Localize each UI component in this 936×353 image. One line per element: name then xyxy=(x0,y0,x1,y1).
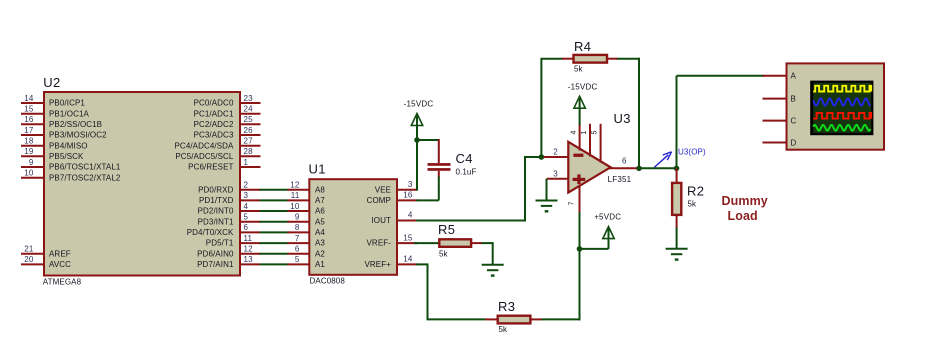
label C4 xyxy=(456,151,473,166)
wire PD1/TXD to U1 A7 xyxy=(260,199,289,201)
svg-text:PB0/ICP1: PB0/ICP1 xyxy=(49,99,85,108)
wire VREF+ to R3 xyxy=(416,263,486,319)
wire R5 to ground xyxy=(482,242,493,265)
svg-text:PD2/INT0: PD2/INT0 xyxy=(198,207,234,216)
svg-text:14: 14 xyxy=(24,94,34,103)
U1 pin 12 (A8) xyxy=(288,181,326,195)
svg-text:5: 5 xyxy=(592,131,599,135)
label R3 xyxy=(498,299,515,314)
probe U3(OP) xyxy=(654,147,706,167)
oscilloscope pin C xyxy=(763,116,797,125)
svg-text:COMP: COMP xyxy=(367,196,391,205)
svg-text:U1: U1 xyxy=(309,162,326,177)
svg-text:8: 8 xyxy=(295,223,300,232)
svg-text:C4: C4 xyxy=(456,151,473,166)
svg-text:U3: U3 xyxy=(614,111,631,126)
svg-text:11: 11 xyxy=(244,234,253,243)
svg-text:5k: 5k xyxy=(688,200,698,209)
svg-text:16: 16 xyxy=(403,191,413,200)
trace B (blue sine wave) xyxy=(813,98,870,105)
svg-text:A6: A6 xyxy=(315,207,325,216)
label Dummy Load xyxy=(722,194,768,223)
U2 pin 21 (AREF) xyxy=(21,245,71,259)
svg-text:15: 15 xyxy=(24,105,34,114)
value 5k (R5) xyxy=(439,250,449,259)
svg-text:R4: R4 xyxy=(574,39,591,54)
trace D (green sine wave) xyxy=(813,125,870,131)
svg-text:28: 28 xyxy=(244,147,254,156)
svg-text:2: 2 xyxy=(553,148,558,157)
svg-text:1: 1 xyxy=(581,131,588,135)
chip U1 body (DAC0808) xyxy=(309,179,397,275)
resistor R3 xyxy=(485,316,543,324)
U1 pin 14 (VREF+) xyxy=(364,255,417,269)
value 0.1uF xyxy=(456,168,477,177)
svg-text:AVCC: AVCC xyxy=(49,260,71,269)
U2 pin 13 (PD7/AIN1) xyxy=(197,255,260,269)
U1 pin 5 (A1) xyxy=(288,255,326,269)
svg-text:PC0/ADC0: PC0/ADC0 xyxy=(194,99,234,108)
capacitor C4 xyxy=(428,139,451,178)
wire R2 to ground xyxy=(676,228,678,249)
svg-text:PD3/INT1: PD3/INT1 xyxy=(198,217,234,226)
svg-text:25: 25 xyxy=(244,115,254,124)
svg-text:PB5/SCK: PB5/SCK xyxy=(49,152,84,161)
svg-text:6: 6 xyxy=(622,157,627,166)
svg-text:PB1/OC1A: PB1/OC1A xyxy=(49,109,89,118)
U1 pin 4 (IOUT) xyxy=(371,211,417,225)
svg-text:A4: A4 xyxy=(315,228,325,237)
svg-text:11: 11 xyxy=(291,191,300,200)
junction VEE/C4 xyxy=(414,137,420,143)
wire output to oscilloscope A xyxy=(677,76,765,170)
svg-text:9: 9 xyxy=(29,158,34,167)
resistor R5 xyxy=(439,239,482,247)
U2 pin 5 (PD3/INT1) xyxy=(198,213,261,227)
svg-text:A: A xyxy=(791,72,797,81)
svg-text:14: 14 xyxy=(403,255,413,264)
value DAC0808 xyxy=(310,277,346,286)
wire PD2/INT0 to U1 A6 xyxy=(260,210,289,212)
oscilloscope screen xyxy=(810,81,873,136)
label U2 xyxy=(43,75,60,90)
U2 pin 25 (PC2/ADC2) xyxy=(194,115,261,129)
U2 pin 24 (PC1/ADC1) xyxy=(194,105,261,119)
svg-text:27: 27 xyxy=(244,137,254,146)
junction output/R2/scope xyxy=(674,166,680,172)
svg-text:4: 4 xyxy=(244,202,249,211)
svg-text:18: 18 xyxy=(24,137,34,146)
svg-text:10: 10 xyxy=(290,202,300,211)
trace C (red square wave) xyxy=(813,113,871,119)
svg-text:26: 26 xyxy=(244,126,254,135)
U2 pin 1 (PC6/RESET) xyxy=(188,158,260,172)
svg-text:AREF: AREF xyxy=(49,249,71,258)
svg-text:6: 6 xyxy=(244,223,249,232)
svg-text:LF351: LF351 xyxy=(608,175,632,184)
wire R4 right to output node xyxy=(617,58,639,169)
svg-text:ATMEGA8: ATMEGA8 xyxy=(43,278,82,287)
U2 pin 19 (PB5/SCK) xyxy=(21,147,84,161)
wire PD4/T0/XCK to U1 A4 xyxy=(260,231,289,233)
value ATMEGA8 xyxy=(43,278,82,287)
junction U3 pin7 / +5VDC / R3 xyxy=(577,246,583,252)
svg-text:PB6/TOSC1/XTAL1: PB6/TOSC1/XTAL1 xyxy=(49,163,121,172)
ground (R5) xyxy=(482,265,504,276)
svg-text:R2: R2 xyxy=(687,184,704,199)
wire PD5/T1 to U1 A3 xyxy=(260,242,289,244)
value 5k (R4) xyxy=(574,65,584,74)
U3 pin 5 xyxy=(592,124,601,163)
junction output node xyxy=(636,166,642,172)
U2 pin 15 (PB1/OC1A) xyxy=(21,105,89,119)
wire junction to C4 top xyxy=(416,139,439,141)
svg-text:PB4/MISO: PB4/MISO xyxy=(49,141,88,150)
svg-text:-15VDC: -15VDC xyxy=(404,100,434,109)
label R5 xyxy=(438,222,455,237)
svg-text:PD4/T0/XCK: PD4/T0/XCK xyxy=(187,228,234,237)
svg-text:A2: A2 xyxy=(315,249,325,258)
svg-text:15: 15 xyxy=(403,233,413,242)
svg-text:5: 5 xyxy=(295,255,300,264)
U2 pin 26 (PC3/ADC3) xyxy=(194,126,261,140)
wire -15VDC to VEE pin 3 xyxy=(416,125,418,191)
resistor R4 xyxy=(562,55,618,63)
oscilloscope pin B xyxy=(763,94,796,103)
power +5VDC xyxy=(579,213,622,249)
ground (R2) xyxy=(666,249,688,260)
svg-text:5k: 5k xyxy=(439,250,449,259)
svg-text:PC5/ADC5/SCL: PC5/ADC5/SCL xyxy=(175,152,234,161)
U3 pin 1 xyxy=(581,124,590,157)
U1 pin 8 (A4) xyxy=(288,223,326,237)
U2 pin 17 (PB3/MOSI/OC2) xyxy=(21,126,107,140)
wire C4 bottom to COMP pin 16 xyxy=(416,177,439,201)
svg-text:+5VDC: +5VDC xyxy=(594,213,621,222)
U3 pin 3 xyxy=(547,169,570,178)
oscilloscope pin D xyxy=(763,138,797,147)
svg-text:0.1uF: 0.1uF xyxy=(456,168,477,177)
svg-text:12: 12 xyxy=(290,181,300,190)
op-amp U3 xyxy=(568,142,610,193)
svg-text:B: B xyxy=(791,94,796,103)
wire R3 right to +5VDC node xyxy=(542,318,581,320)
svg-text:A8: A8 xyxy=(315,185,325,194)
U2 pin 27 (PC4/ADC4/SDA) xyxy=(175,137,261,151)
svg-text:R3: R3 xyxy=(498,299,515,314)
svg-text:13: 13 xyxy=(244,255,254,264)
svg-text:PB2/SS/OC1B: PB2/SS/OC1B xyxy=(49,120,102,129)
svg-text:U3(OP): U3(OP) xyxy=(678,147,706,156)
wire PD3/INT1 to U1 A5 xyxy=(260,221,289,223)
power -15VDC (U3 pin 4) xyxy=(568,83,598,125)
svg-text:PC3/ADC3: PC3/ADC3 xyxy=(194,131,234,140)
U2 pin 4 (PD2/INT0) xyxy=(198,202,261,216)
wire PD6/AIN0 to U1 A2 xyxy=(260,253,289,255)
svg-text:PD1/TXD: PD1/TXD xyxy=(199,196,234,205)
wire U3 pin7 down to R3 xyxy=(579,212,581,320)
svg-text:21: 21 xyxy=(24,245,34,254)
svg-text:A1: A1 xyxy=(315,260,325,269)
svg-text:9: 9 xyxy=(295,213,300,222)
svg-text:24: 24 xyxy=(244,105,254,114)
U2 pin 23 (PC0/ADC0) xyxy=(194,94,261,108)
U1 pin 10 (A6) xyxy=(288,202,326,216)
svg-text:Dummy: Dummy xyxy=(722,194,768,208)
svg-text:A5: A5 xyxy=(315,217,325,226)
value LF351 xyxy=(608,175,632,184)
svg-text:12: 12 xyxy=(244,245,254,254)
wire R4 left xyxy=(540,58,563,60)
svg-text:DAC0808: DAC0808 xyxy=(310,277,346,286)
svg-text:PD6/AIN0: PD6/AIN0 xyxy=(197,249,234,258)
U1 pin 16 (COMP) xyxy=(367,191,418,205)
wire IOUT to U3 pin 2 xyxy=(416,157,541,222)
U1 pin 15 (VREF-) xyxy=(367,233,418,247)
svg-text:10: 10 xyxy=(24,169,34,178)
svg-text:U2: U2 xyxy=(43,75,60,90)
svg-text:5k: 5k xyxy=(574,65,584,74)
svg-text:20: 20 xyxy=(24,255,34,264)
power -15VDC (VEE/C4) xyxy=(404,100,434,126)
resistor R2 xyxy=(672,168,681,228)
svg-text:4: 4 xyxy=(408,211,413,220)
svg-text:PD7/AIN1: PD7/AIN1 xyxy=(197,260,234,269)
svg-text:IOUT: IOUT xyxy=(371,216,391,225)
svg-text:7: 7 xyxy=(295,234,300,243)
svg-text:A3: A3 xyxy=(315,239,325,248)
wire PD7/AIN1 to U1 A1 xyxy=(260,263,289,265)
U2 pin 12 (PD6/AIN0) xyxy=(197,245,260,259)
U2 pin 18 (PB4/MISO) xyxy=(21,137,88,151)
U2 pin 9 (PB6/TOSC1/XTAL1) xyxy=(21,158,121,172)
svg-text:VEE: VEE xyxy=(375,185,391,194)
U2 pin 2 (PD0/RXD) xyxy=(198,181,260,195)
svg-text:7: 7 xyxy=(568,202,575,206)
svg-text:VREF-: VREF- xyxy=(367,239,392,248)
U3 pin 4 xyxy=(570,124,579,151)
svg-text:6: 6 xyxy=(295,245,300,254)
U1 pin 6 (A2) xyxy=(288,245,326,259)
chip U2 body (ATMEGA8) xyxy=(44,92,240,276)
svg-text:23: 23 xyxy=(244,94,254,103)
U2 pin 20 (AVCC) xyxy=(21,255,71,269)
U2 pin 11 (PD5/T1) xyxy=(206,234,261,248)
svg-text:PC4/ADC4/SDA: PC4/ADC4/SDA xyxy=(175,141,235,150)
trace A (yellow square wave) xyxy=(813,86,871,92)
U1 pin 11 (A7) xyxy=(288,191,326,205)
svg-text:3: 3 xyxy=(553,169,558,178)
U3 pin 7 xyxy=(568,185,579,214)
svg-text:PC6/RESET: PC6/RESET xyxy=(188,163,233,172)
svg-text:PD5/T1: PD5/T1 xyxy=(206,239,234,248)
svg-text:16: 16 xyxy=(24,115,34,124)
svg-text:4: 4 xyxy=(570,131,577,135)
svg-text:PC2/ADC2: PC2/ADC2 xyxy=(194,120,234,129)
label R2 xyxy=(687,184,704,199)
U1 pin 9 (A5) xyxy=(288,213,326,227)
svg-text:3: 3 xyxy=(408,180,413,189)
U2 pin 14 (PB0/ICP1) xyxy=(21,94,85,108)
svg-text:PC1/ADC1: PC1/ADC1 xyxy=(194,109,234,118)
U1 pin 3 (VEE) xyxy=(375,180,418,194)
U2 pin 28 (PC5/ADC5/SCL) xyxy=(175,147,260,161)
wire output node xyxy=(639,167,677,169)
svg-text:D: D xyxy=(791,138,797,147)
U1 pin 7 (A3) xyxy=(288,234,326,248)
oscilloscope body xyxy=(787,63,885,149)
wire U3 pin2 node up to R4 xyxy=(540,59,542,157)
svg-text:Load: Load xyxy=(728,209,758,223)
svg-text:-15VDC: -15VDC xyxy=(568,83,598,92)
svg-text:C: C xyxy=(791,116,797,125)
svg-text:2: 2 xyxy=(244,181,249,190)
label U1 xyxy=(309,162,326,177)
U2 pin 10 (PB7/TOSC2/XTAL2) xyxy=(21,169,121,183)
ground (U3 pin 3) xyxy=(536,179,558,212)
U2 pin 3 (PD1/TXD) xyxy=(199,191,261,205)
value 5k (R2) xyxy=(688,200,698,209)
svg-text:PB3/MOSI/OC2: PB3/MOSI/OC2 xyxy=(49,131,107,140)
U3 pin 2 xyxy=(544,148,570,157)
U2 pin 16 (PB2/SS/OC1B) xyxy=(21,115,102,129)
junction U3 inverting input xyxy=(539,154,545,160)
svg-text:5: 5 xyxy=(244,213,249,222)
value 5k (R3) xyxy=(499,325,509,334)
svg-text:PB7/TOSC2/XTAL2: PB7/TOSC2/XTAL2 xyxy=(49,173,121,182)
label R4 xyxy=(574,39,591,54)
svg-text:PD0/RXD: PD0/RXD xyxy=(198,185,233,194)
svg-text:3: 3 xyxy=(244,191,249,200)
oscilloscope pin A xyxy=(763,72,797,81)
U3 pin 6 (output) xyxy=(609,157,638,169)
svg-text:5k: 5k xyxy=(499,325,509,334)
svg-text:R5: R5 xyxy=(438,222,455,237)
wire VREF- to R5 xyxy=(414,242,439,244)
svg-text:1: 1 xyxy=(244,158,249,167)
svg-text:A7: A7 xyxy=(315,196,325,205)
svg-text:VREF+: VREF+ xyxy=(364,260,391,269)
svg-text:19: 19 xyxy=(24,147,34,156)
wire PD0/RXD to U1 A8 xyxy=(260,189,289,191)
label U3 xyxy=(614,111,631,126)
svg-text:17: 17 xyxy=(24,126,34,135)
U2 pin 6 (PD4/T0/XCK) xyxy=(187,223,261,237)
